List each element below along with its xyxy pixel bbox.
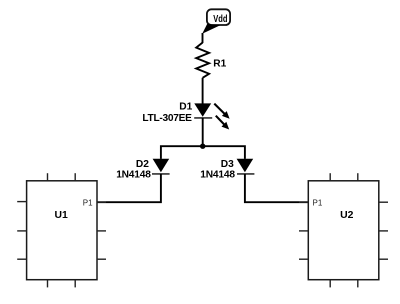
svg-text:D2: D2	[136, 159, 149, 170]
svg-text:P1: P1	[83, 198, 93, 207]
wire R1 to D1	[202, 78, 204, 104]
svg-text:1N4148: 1N4148	[116, 170, 151, 181]
wire Vdd to R1	[202, 33, 204, 43]
LED light arrow 2	[216, 116, 229, 130]
power flag Vdd	[202, 9, 230, 34]
svg-text:U2: U2	[340, 210, 354, 221]
U2 left pins	[299, 201, 308, 203]
LED light arrow 1	[214, 104, 229, 119]
U1 right pins	[97, 201, 106, 203]
wire rail (junction to D2/D3 tops)	[161, 146, 245, 159]
diode D2	[152, 159, 170, 174]
IC U1	[17, 173, 106, 287]
U2 top pins	[329, 173, 331, 181]
svg-text:P1: P1	[313, 198, 323, 207]
U1 top pins	[47, 173, 49, 181]
svg-text:D1: D1	[179, 102, 192, 113]
junction node	[200, 144, 205, 149]
LED D1	[194, 103, 212, 118]
svg-text:LTL-307EE: LTL-307EE	[142, 113, 192, 124]
U1 left pins	[17, 201, 26, 203]
U1 bottom pins	[47, 280, 49, 288]
wire D3 to U2 pin P1	[245, 174, 308, 202]
svg-text:Vdd: Vdd	[213, 14, 227, 25]
U2 bottom pins	[329, 280, 331, 288]
wire D1 to junction	[202, 118, 204, 146]
U2 right pins	[379, 201, 388, 203]
resistor R1	[196, 43, 209, 78]
svg-text:R1: R1	[213, 58, 226, 69]
IC U2	[299, 173, 388, 287]
wire D2 to U1 pin P1	[97, 174, 161, 202]
svg-text:U1: U1	[55, 210, 69, 221]
svg-text:1N4148: 1N4148	[200, 170, 235, 181]
diode D3	[237, 159, 255, 174]
svg-text:D3: D3	[221, 159, 234, 170]
